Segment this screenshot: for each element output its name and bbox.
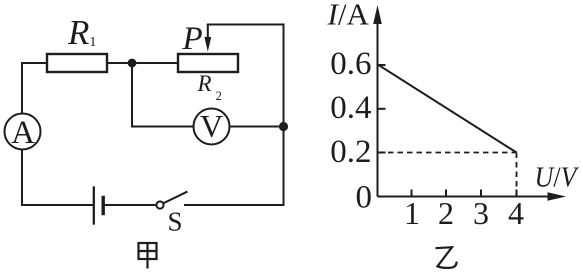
svg-text:0.6: 0.6 xyxy=(330,46,371,82)
svg-text:1: 1 xyxy=(404,195,420,231)
x-axis arrowhead xyxy=(548,192,567,201)
svg-text:0.4: 0.4 xyxy=(330,90,371,126)
dashed guide vertical U=4 xyxy=(516,153,518,197)
rheostat R2 body xyxy=(178,54,238,72)
svg-text:R2: R2 xyxy=(197,71,222,103)
wire battery to switch xyxy=(106,204,157,206)
svg-text:0.2: 0.2 xyxy=(330,134,371,170)
svg-text:4: 4 xyxy=(508,195,524,231)
node junction right xyxy=(279,122,288,131)
y-axis xyxy=(377,22,379,197)
wire ammeter bottom xyxy=(21,150,23,206)
wire left loop top xyxy=(22,63,47,114)
svg-text:2: 2 xyxy=(438,195,454,231)
svg-text:3: 3 xyxy=(473,195,489,231)
wire voltmeter branch left xyxy=(132,63,194,127)
label jia (甲) caption xyxy=(139,243,157,269)
wire bottom left xyxy=(22,204,93,206)
wire switch to right xyxy=(185,204,284,206)
y ticks xyxy=(378,65,386,153)
svg-text:V: V xyxy=(200,108,223,144)
rheostat slider arrow P xyxy=(204,25,211,52)
svg-text:R1: R1 xyxy=(67,13,96,52)
battery cell xyxy=(94,188,103,224)
svg-text:P: P xyxy=(182,21,203,57)
svg-text:A: A xyxy=(11,115,35,151)
ammeter A xyxy=(5,114,41,150)
svg-text:0: 0 xyxy=(356,180,373,216)
wire slider to right side down xyxy=(208,25,284,206)
label yi (乙) caption xyxy=(436,247,457,268)
dashed guide horizontal 0.2 xyxy=(379,152,517,154)
graph axes xyxy=(378,22,551,197)
svg-text:I/A: I/A xyxy=(327,0,370,31)
resistor R1 xyxy=(47,54,107,72)
graph I-U line xyxy=(379,65,517,153)
svg-text:U/V: U/V xyxy=(535,163,580,194)
wire voltmeter to right xyxy=(230,126,284,128)
node junction left xyxy=(128,59,137,68)
switch S xyxy=(156,192,186,209)
voltmeter U xyxy=(194,109,230,145)
wire R1 to rheostat xyxy=(107,62,178,64)
x-axis xyxy=(378,196,551,198)
y-axis arrowhead xyxy=(373,5,382,24)
x ticks xyxy=(412,190,517,197)
svg-text:S: S xyxy=(168,207,183,237)
